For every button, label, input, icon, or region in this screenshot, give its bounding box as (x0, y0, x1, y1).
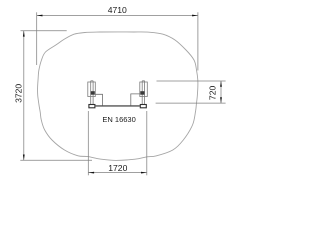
equipment: cross bar (95, 105, 140, 107)
dimension 1720: dimension line (88, 172, 147, 174)
equipment: left post tube (90, 81, 92, 105)
dimension 1720: extension line left (87, 111, 89, 175)
dimension 720: dimension line (220, 81, 222, 103)
dimension 3720: bottom arrow (23, 155, 25, 161)
equipment: right footing (140, 105, 146, 108)
equipment: left footing (89, 105, 95, 108)
dimension 720: bottom arrow (220, 97, 222, 103)
svg-text:720: 720 (207, 86, 217, 101)
equipment: left clamp (91, 91, 95, 95)
equipment: right handle bar (131, 94, 140, 106)
safety zone outline (blob) (38, 32, 198, 161)
equipment: right clamp (140, 91, 144, 95)
dimension 720: extension line top (157, 80, 226, 82)
dimension 1720: right arrow (141, 172, 147, 174)
dimension 3720: extension line top (21, 30, 67, 32)
dimension 3720: dimension line (23, 31, 25, 161)
dimension 4710: right arrow (192, 15, 198, 17)
equipment: left handle bar (95, 94, 102, 105)
equipment: left bracket outline (88, 82, 96, 97)
dimension 720: top arrow (220, 81, 222, 87)
dimension 3720: top arrow (23, 31, 25, 37)
dimension 3720: extension line bottom (20, 159, 92, 161)
dimension 4710: extension line left (36, 12, 38, 65)
svg-text:EN 16630: EN 16630 (102, 115, 135, 124)
svg-text:1720: 1720 (108, 163, 127, 173)
svg-text:4710: 4710 (108, 5, 127, 15)
equipment: right post tube (141, 81, 143, 105)
dimension 720: extension line bottom (156, 102, 226, 104)
equipment: right bracket outline (140, 82, 148, 97)
dimension 1720: extension line right (146, 111, 148, 175)
dimension 4710: extension line right (197, 12, 199, 70)
dimension 4710: left arrow (37, 15, 43, 17)
dimension 1720: left arrow (88, 172, 94, 174)
svg-text:3720: 3720 (14, 84, 24, 103)
dimension 4710: dimension line (37, 15, 198, 17)
